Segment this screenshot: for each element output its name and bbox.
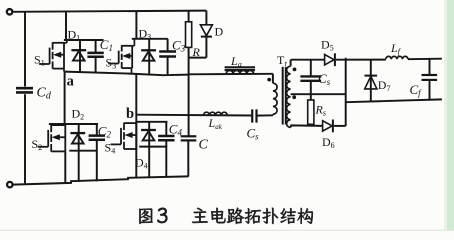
wire Cf bottom lead: [429, 80, 431, 100]
capacitor Cs (series): [251, 109, 253, 122]
svg-text:Lak: Lak: [208, 116, 223, 131]
svg-text:C3: C3: [172, 38, 186, 54]
wire C4 rail to bottom bus: [165, 147, 167, 178]
wire Cs to transformer primary bottom: [257, 114, 273, 116]
diode D7: [365, 75, 378, 77]
capacitor C (clamp): [181, 135, 197, 137]
transistor S3: [108, 45, 132, 68]
wire S4 leg top rail: [136, 121, 167, 123]
wire node b to transformer via La: [188, 73, 273, 76]
wire D6 to return vertical: [334, 125, 346, 127]
wire Cs6 top lead: [310, 60, 312, 77]
wire S2 leg top rail: [49, 123, 98, 125]
input terminal bottom-left: [7, 182, 13, 188]
wire Cs6 to Rs: [310, 81, 312, 100]
svg-text:S3: S3: [106, 56, 117, 71]
svg-text:Tr: Tr: [277, 53, 287, 68]
wire C2 top lead: [96, 124, 98, 135]
wire D3 lead: [148, 39, 150, 74]
wire S4 leg bottom rail: [139, 146, 167, 148]
transformer polarity dot secondary mid: [292, 95, 296, 99]
wire clamp C to bottom bus: [187, 140, 189, 176]
wire secondary top lead: [290, 60, 292, 66]
wire D4 rail to bottom bus: [148, 147, 150, 178]
svg-text:D4: D4: [135, 156, 148, 171]
wire node a to S2 leg: [64, 72, 66, 124]
svg-text:D1: D1: [68, 28, 81, 43]
wire S2 leg bottom rail: [69, 150, 97, 152]
wire Rs bottom lead: [310, 124, 312, 126]
wire secondary top rail left: [291, 59, 325, 61]
svg-text:C4: C4: [169, 122, 183, 138]
wire C2 bottom lead: [96, 140, 98, 151]
svg-text:D5: D5: [321, 38, 334, 53]
wire C4 bottom lead: [165, 140, 167, 146]
diode D4: [141, 129, 156, 131]
resistor Rs: [308, 100, 314, 124]
wire top bus to S3 leg: [135, 11, 137, 39]
svg-text:Rs: Rs: [315, 103, 326, 118]
svg-text:S2: S2: [32, 137, 43, 152]
transformer polarity dot secondary top: [293, 68, 297, 72]
svg-text:b: b: [126, 106, 134, 122]
wire left rail lower: [24, 94, 26, 184]
wire R bottom lead down to clamp cap C: [188, 47, 190, 136]
transformer core: [282, 67, 284, 125]
svg-text:Cs: Cs: [318, 71, 331, 87]
transistor S2: [38, 125, 66, 152]
transistor S4: [111, 123, 137, 150]
wire D1 lead: [79, 40, 81, 72]
wire C3 top lead: [167, 39, 169, 52]
svg-text:D: D: [215, 25, 224, 39]
wire top rail Lf to output: [408, 58, 442, 61]
wire C1 top lead: [95, 40, 97, 53]
inductor La: [226, 70, 253, 74]
svg-text:C1: C1: [100, 37, 113, 53]
wire node b vertical: [135, 73, 137, 150]
capacitor C3: [159, 50, 176, 53]
wire D bottom lead: [205, 37, 207, 58]
svg-text:Cd: Cd: [37, 86, 52, 102]
wire R top lead: [188, 11, 190, 22]
svg-text:D2: D2: [72, 107, 85, 122]
caption 图3 主电路拓扑结构: [139, 208, 153, 224]
diode D5: [325, 55, 335, 65]
wire S1 leg top rail: [64, 39, 104, 41]
wire S2 source to bottom bus: [64, 151, 66, 183]
wire top bus: [12, 11, 206, 12]
svg-text:D7: D7: [378, 78, 391, 93]
capacitor Cd: [16, 87, 33, 90]
wire secondary mid tap: [291, 93, 346, 95]
svg-text:C: C: [199, 138, 209, 153]
transformer secondary winding: [287, 66, 291, 127]
wire return vertical: [345, 58, 347, 126]
svg-text:D6: D6: [322, 135, 335, 150]
scan green edge right: [447, 0, 454, 231]
diode D6: [323, 121, 333, 131]
wire D top lead: [205, 11, 207, 25]
svg-text:S1: S1: [34, 53, 45, 68]
svg-text:Cf: Cf: [410, 82, 423, 98]
diode D1: [71, 49, 86, 51]
svg-text:Lf: Lf: [390, 41, 402, 56]
wire S4 source to bottom bus: [135, 149, 137, 178]
transformer polarity dot primary: [267, 78, 271, 82]
wire C3 bottom lead: [167, 57, 169, 75]
diode D: [200, 25, 212, 36]
wire primary top lead: [272, 74, 274, 83]
wire node b to Cs via Lk: [136, 114, 251, 117]
wire output return rail: [346, 99, 442, 102]
wire D to R join: [189, 57, 207, 59]
diode D2: [70, 132, 85, 134]
capacitor C4: [158, 135, 174, 138]
wire Cf top lead: [429, 59, 431, 75]
capacitor Cf: [422, 74, 438, 76]
resistor R: [186, 22, 192, 48]
svg-text:S4: S4: [105, 141, 116, 156]
transformer primary winding: [273, 83, 277, 114]
wire D2 lead: [78, 124, 80, 151]
diode D3: [141, 49, 156, 51]
capacitor C1: [87, 52, 103, 55]
wire left rail upper: [24, 12, 26, 87]
wire top rail D5 to Lf: [336, 59, 386, 61]
wire D2 rail to bottom bus: [78, 151, 80, 182]
wire bottom bus: [13, 176, 189, 184]
wire C1 bottom lead: [95, 57, 97, 72]
wire C4 top lead: [165, 122, 167, 136]
svg-text:a: a: [67, 73, 75, 89]
capacitor C6 snubber: [300, 75, 321, 77]
inductor La core bars: [225, 66, 255, 68]
svg-text:Cs: Cs: [247, 126, 260, 142]
wire S3 leg top rail: [132, 38, 168, 40]
input terminal top-left: [7, 9, 13, 15]
scan green edge bottom: [0, 230, 454, 231]
inductor Lf: [386, 56, 408, 59]
wire secondary bottom lead to D6: [291, 125, 323, 127]
capacitor C2: [89, 134, 105, 137]
wire node-a/node-b rail: [65, 72, 189, 76]
svg-text:C2: C2: [98, 124, 112, 140]
transistor S1: [39, 42, 64, 69]
wire top bus to S1 leg: [65, 12, 67, 40]
wire D7 lead: [370, 60, 372, 101]
svg-text:D3: D3: [139, 27, 152, 42]
svg-text:La: La: [230, 54, 242, 69]
wire C2 rail to bottom bus: [96, 151, 98, 182]
wire D4 lead: [148, 122, 150, 147]
inductor Lak: [204, 112, 228, 115]
